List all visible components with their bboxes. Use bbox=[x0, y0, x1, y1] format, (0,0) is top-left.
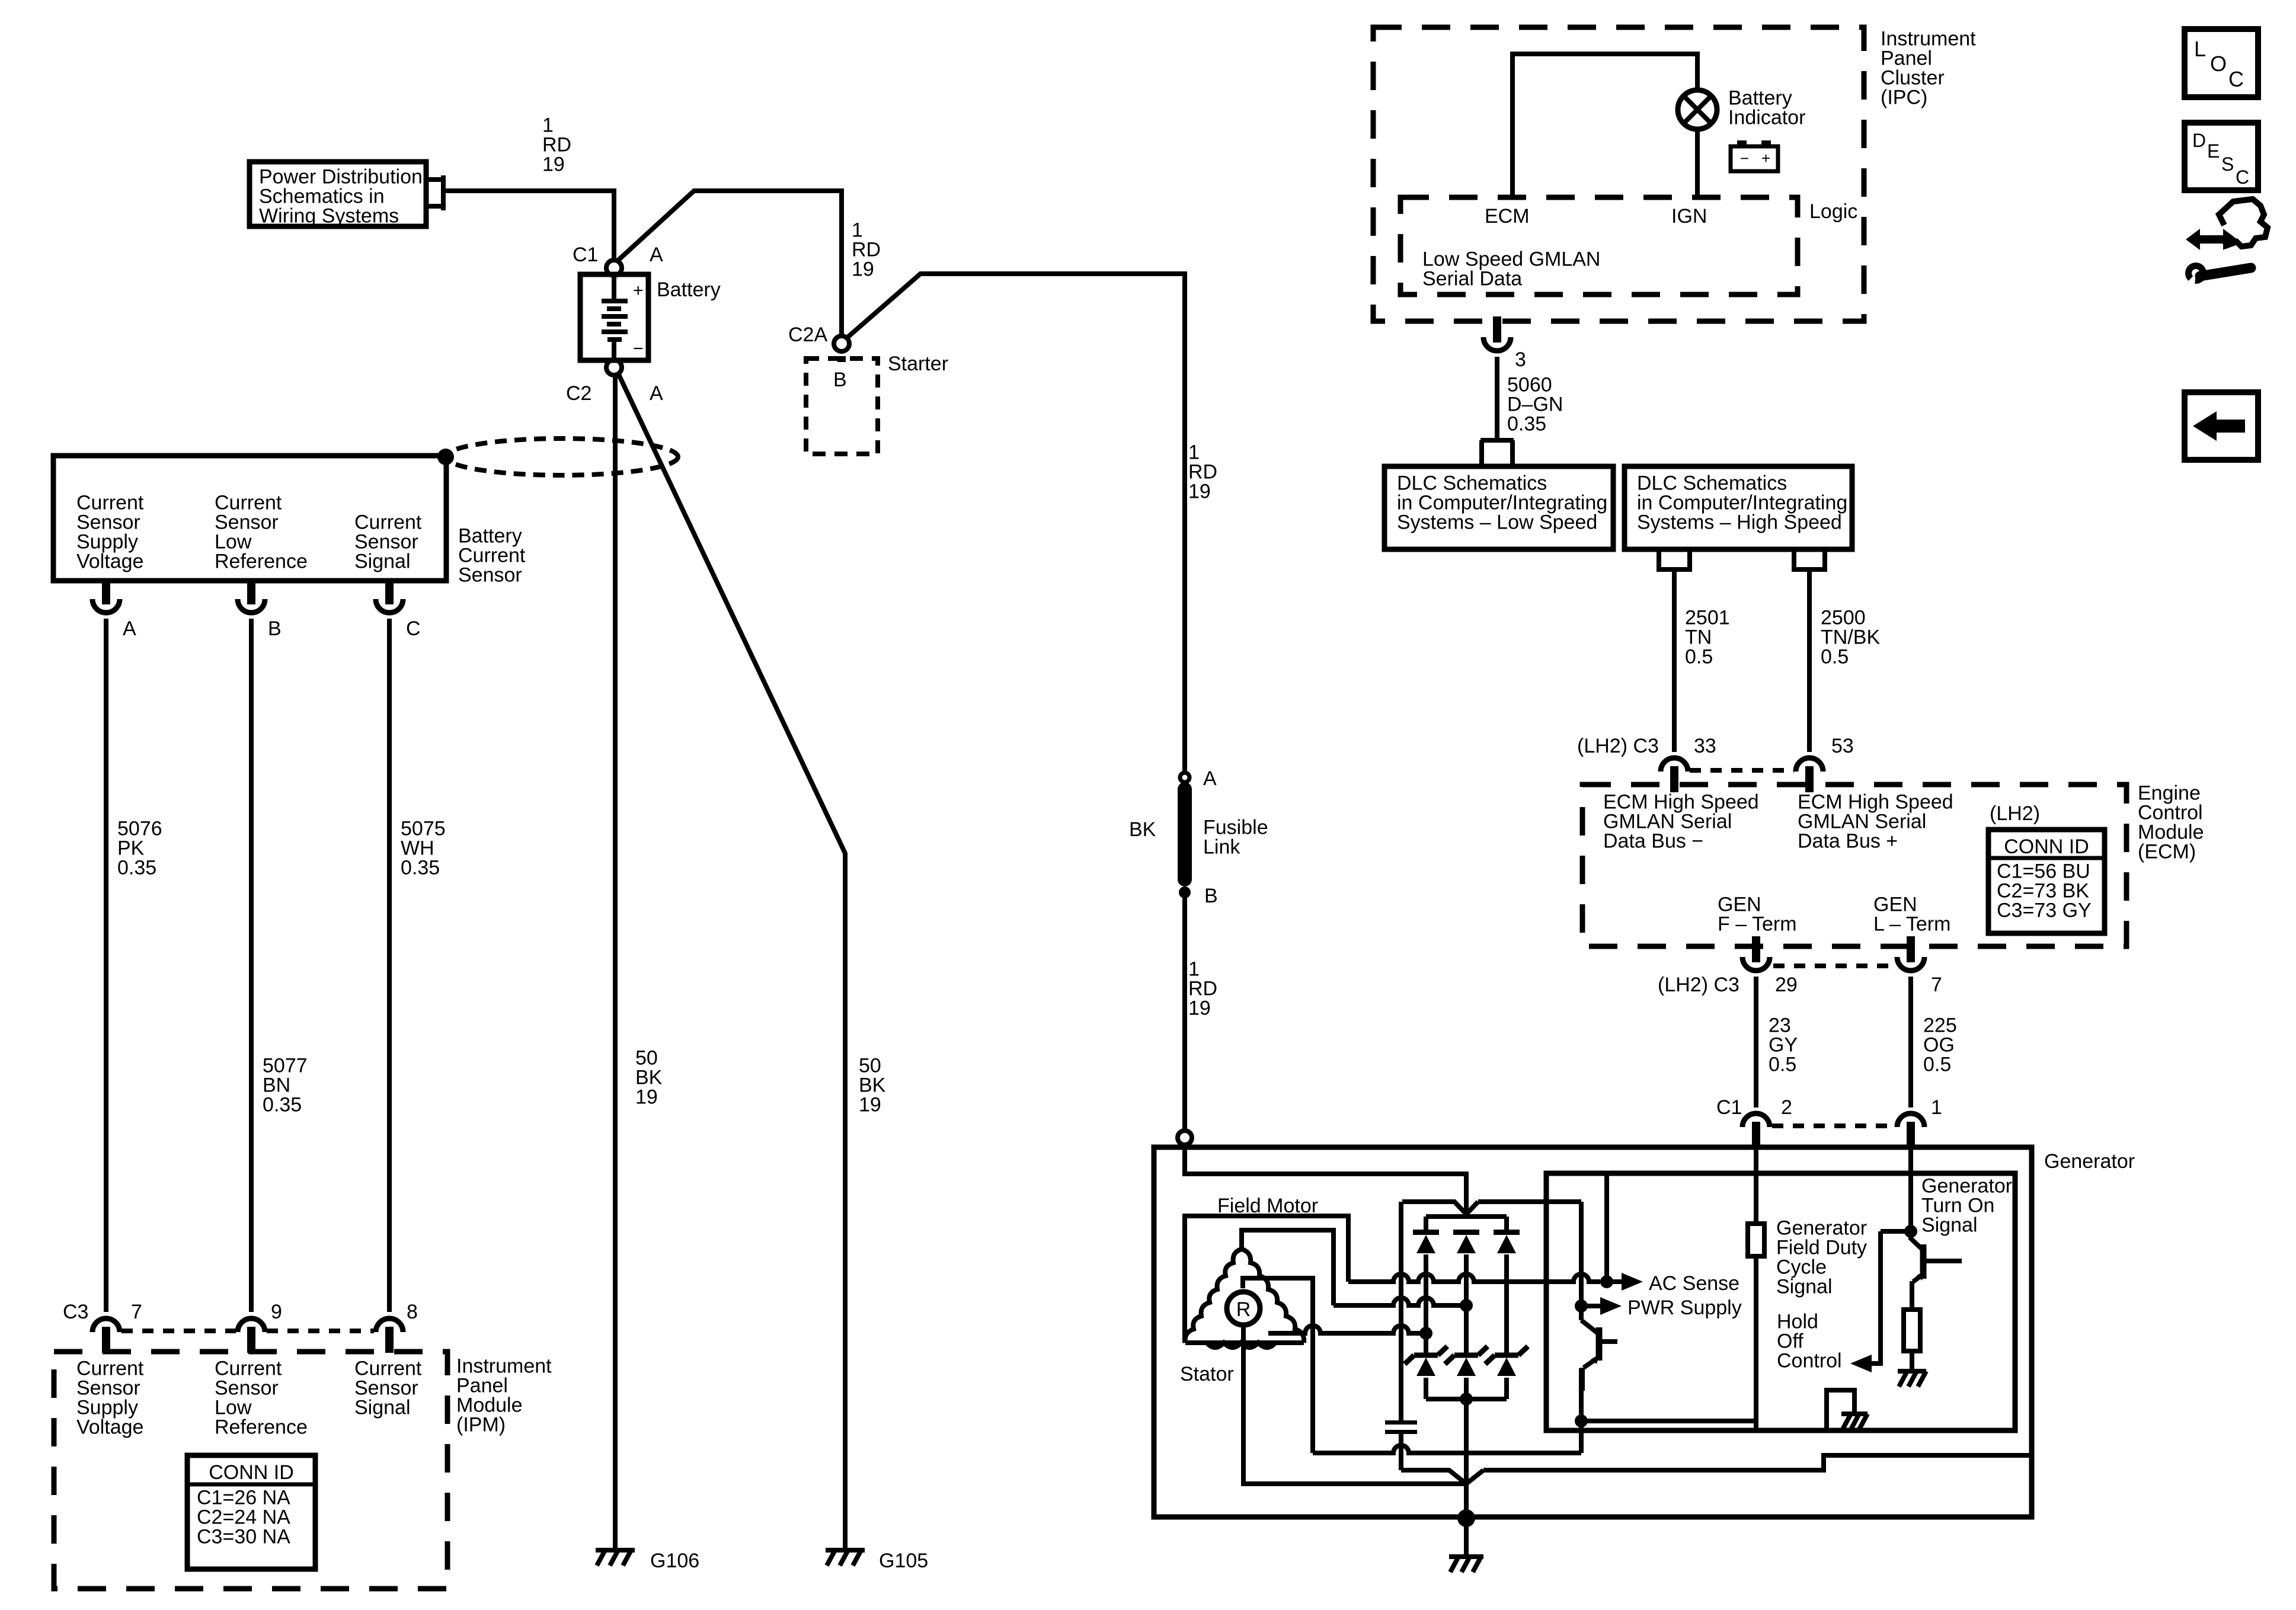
svg-text:2: 2 bbox=[1781, 1096, 1792, 1119]
svg-text:B: B bbox=[1204, 885, 1218, 907]
wire: stator phase 2 to D2 column bbox=[1334, 1298, 1466, 1305]
svg-text:Signal: Signal bbox=[1921, 1214, 1978, 1237]
svg-text:19: 19 bbox=[852, 258, 874, 281]
junction on zener rail bbox=[1460, 1393, 1473, 1406]
svg-text:A: A bbox=[123, 617, 136, 640]
box: Generator bbox=[1154, 1147, 2032, 1517]
svg-text:E: E bbox=[2207, 140, 2220, 162]
svg-text:Voltage: Voltage bbox=[76, 1416, 143, 1439]
wire: pin 1 into generator bbox=[1908, 1139, 1913, 1227]
junction on D1 column (phase 3) bbox=[1419, 1327, 1432, 1340]
svg-text:Indicator: Indicator bbox=[1728, 107, 1805, 129]
svg-text:L – Term: L – Term bbox=[1873, 913, 1950, 936]
svg-text:Signal: Signal bbox=[1776, 1276, 1833, 1298]
svg-text:Reference: Reference bbox=[215, 1416, 308, 1439]
box: DLC Schematics high speed bbox=[1625, 466, 1852, 549]
wire: B+ into generator to rectifier top rail bbox=[1185, 1145, 1466, 1217]
svg-text:Wiring Systems: Wiring Systems bbox=[259, 205, 399, 228]
svg-text:(LH2) C3: (LH2) C3 bbox=[1577, 735, 1659, 757]
node C2A (starter terminal ring) bbox=[834, 336, 849, 351]
fork from high-speed DLC (bus +) bbox=[1792, 549, 1827, 569]
svg-text:Signal: Signal bbox=[354, 550, 411, 573]
svg-text:Sensor: Sensor bbox=[458, 564, 522, 587]
rectifier diode D2 bbox=[1453, 1230, 1479, 1235]
svg-text:Signal: Signal bbox=[354, 1397, 411, 1419]
icon: LOC bbox=[2185, 29, 2258, 97]
svg-text:C3=30 NA: C3=30 NA bbox=[197, 1526, 290, 1548]
svg-text:L: L bbox=[2194, 37, 2206, 61]
svg-text:G105: G105 bbox=[879, 1550, 928, 1572]
ECM pin 53 connector bbox=[1796, 758, 1823, 772]
junction node on sensor box (B- tie) bbox=[437, 449, 454, 465]
transistor Q1 (regulator driver) bbox=[1581, 1320, 1598, 1333]
CONN ID table of IPM bbox=[187, 1455, 315, 1569]
junction AC sense bbox=[1600, 1275, 1613, 1288]
junction on D2 column (phase 2) bbox=[1460, 1299, 1473, 1312]
ground G105 bbox=[826, 1548, 865, 1553]
svg-text:B: B bbox=[268, 617, 282, 640]
icon: DESC bbox=[2185, 123, 2258, 190]
svg-text:7: 7 bbox=[1931, 974, 1942, 996]
svg-text:Systems – Low Speed: Systems – Low Speed bbox=[1397, 511, 1597, 534]
svg-text:C: C bbox=[406, 617, 421, 640]
rectifier diode D1 bbox=[1413, 1230, 1439, 1235]
svg-text:Field Motor: Field Motor bbox=[1217, 1195, 1318, 1217]
generator chassis ground bbox=[1449, 1554, 1483, 1559]
wire: 5075 WH 0.35 (sensor signal) bbox=[387, 619, 392, 1312]
svg-text:R: R bbox=[1236, 1298, 1251, 1321]
zener diode Z3 bbox=[1495, 1353, 1518, 1358]
svg-text:0.5: 0.5 bbox=[1685, 646, 1713, 668]
svg-text:(LH2): (LH2) bbox=[1990, 802, 2040, 825]
svg-text:G106: G106 bbox=[650, 1550, 699, 1572]
zener diode Z2 bbox=[1454, 1353, 1478, 1358]
PWR Supply arrow bbox=[1581, 1304, 1600, 1308]
B+ rail split (V) to cap rail and regulator rail bbox=[1402, 1202, 1581, 1214]
svg-text:19: 19 bbox=[1188, 997, 1211, 1020]
svg-text:ECM: ECM bbox=[1485, 205, 1530, 228]
fork from high-speed DLC (bus -) bbox=[1657, 549, 1692, 569]
wire: 5077 BN 0.35 (low reference) bbox=[249, 619, 254, 1312]
svg-text:19: 19 bbox=[635, 1086, 658, 1109]
icon: schematic navigation (arrows and wrench) bbox=[2186, 229, 2237, 250]
svg-text:0.35: 0.35 bbox=[263, 1094, 302, 1116]
stator inner loop (apex) bbox=[1242, 1230, 1334, 1305]
svg-text:−: − bbox=[633, 339, 644, 359]
connector dashed line C3 of IPM bbox=[121, 1329, 236, 1333]
zener diode Z1 bbox=[1414, 1353, 1438, 1358]
wire: turn on signal with junction bbox=[1904, 1225, 1917, 1238]
svg-text:C2A: C2A bbox=[788, 324, 827, 346]
box: Instrument Panel Cluster IPC (dashed) bbox=[1373, 27, 1864, 321]
svg-text:Voltage: Voltage bbox=[76, 550, 143, 573]
svg-text:+: + bbox=[633, 281, 644, 300]
ECM pin 33 connector bbox=[1661, 758, 1688, 772]
connector dashed line (LH2) C3 row bbox=[1773, 964, 1894, 968]
box: voltage regulator (inner) bbox=[1546, 1173, 2015, 1430]
pin C connector of current sensor bbox=[385, 581, 394, 598]
wire: 2501 TN 0.5 bbox=[1672, 569, 1677, 752]
zener common rail bbox=[1426, 1397, 1507, 1401]
svg-text:8: 8 bbox=[407, 1301, 418, 1323]
resistor R2 (turn on pulldown) bbox=[1904, 1310, 1920, 1351]
IPM pin 9 connector bbox=[238, 1318, 265, 1332]
wire: regulator common return bbox=[1483, 1455, 2029, 1470]
ground merge into center column bbox=[1401, 1470, 1483, 1484]
wire: rotor to ground rail bbox=[1243, 1325, 1466, 1484]
wire: 50 BK 19 to G106 bbox=[613, 375, 618, 1550]
battery B1 bbox=[580, 274, 648, 360]
wire: AC sense tap from inner box top bbox=[1604, 1173, 1609, 1282]
rectifier cathode rail bbox=[1426, 1214, 1507, 1219]
junction PWR supply bbox=[1575, 1299, 1588, 1313]
svg-text:19: 19 bbox=[859, 1094, 881, 1116]
svg-text:CONN ID: CONN ID bbox=[209, 1461, 294, 1484]
svg-text:S: S bbox=[2221, 153, 2234, 175]
hold off control path bbox=[1872, 1231, 1911, 1363]
wire: battery positive to starter branch bbox=[617, 191, 842, 335]
svg-text:0.5: 0.5 bbox=[1821, 646, 1849, 668]
fork into DLC low-speed box bbox=[1480, 440, 1514, 466]
svg-text:Link: Link bbox=[1203, 836, 1240, 859]
svg-text:BK: BK bbox=[1129, 818, 1156, 841]
svg-text:Battery: Battery bbox=[657, 279, 721, 301]
svg-text:53: 53 bbox=[1831, 735, 1854, 757]
wire: 5060 D-GN 0.35 serial data bbox=[1495, 357, 1499, 438]
svg-text:3: 3 bbox=[1515, 348, 1526, 371]
svg-text:C1: C1 bbox=[1716, 1096, 1742, 1119]
svg-text:Data Bus −: Data Bus − bbox=[1603, 830, 1703, 853]
svg-text:(ECM): (ECM) bbox=[2138, 841, 2196, 863]
svg-text:0.5: 0.5 bbox=[1923, 1054, 1951, 1076]
wire: 23 GY 0.5 field duty cycle bbox=[1754, 977, 1758, 1108]
generator case ground node bbox=[1457, 1509, 1475, 1527]
rectifier diode D3 bbox=[1494, 1230, 1520, 1235]
CONN ID table of ECM bbox=[1988, 830, 2105, 933]
svg-text:(IPC): (IPC) bbox=[1881, 87, 1927, 109]
svg-text:Generator: Generator bbox=[2044, 1150, 2135, 1173]
svg-text:33: 33 bbox=[1694, 735, 1716, 757]
wire: ECM to battery indicator inside IPC bbox=[1512, 54, 1697, 197]
svg-text:+: + bbox=[1761, 149, 1770, 167]
svg-text:B: B bbox=[833, 369, 847, 391]
chassis ground of R2 bbox=[1898, 1369, 1926, 1374]
svg-text:Logic: Logic bbox=[1809, 200, 1857, 223]
IPM pin 7 connector bbox=[92, 1318, 120, 1332]
svg-text:A: A bbox=[1203, 767, 1217, 790]
svg-text:O: O bbox=[2210, 52, 2227, 76]
regulator chassis ground bbox=[1841, 1411, 1868, 1416]
fusible link terminal B (junction) bbox=[1179, 886, 1191, 898]
svg-text:F – Term: F – Term bbox=[1718, 913, 1797, 936]
svg-text:C: C bbox=[2236, 167, 2249, 188]
svg-text:C2: C2 bbox=[566, 382, 591, 405]
AC Sense arrow bbox=[1607, 1279, 1622, 1284]
box: Power Distribution Schematics in Wiring Systems bbox=[250, 162, 426, 226]
generator ground stem bbox=[1464, 1518, 1469, 1557]
box: Engine Control Module ECM (dashed) bbox=[1582, 785, 2126, 946]
wire: 2500 TN/BK 0.5 bbox=[1807, 569, 1812, 752]
connector dashed line (generator C1) bbox=[1772, 1124, 1895, 1128]
svg-text:PWR Supply: PWR Supply bbox=[1627, 1297, 1742, 1319]
svg-text:0.35: 0.35 bbox=[117, 857, 156, 879]
pin B connector of current sensor bbox=[247, 581, 255, 598]
rotor R bbox=[1227, 1292, 1260, 1325]
svg-text:D: D bbox=[2192, 130, 2206, 151]
svg-text:9: 9 bbox=[271, 1301, 282, 1323]
node C1 (battery positive terminal) bbox=[606, 260, 622, 276]
svg-text:Data Bus +: Data Bus + bbox=[1798, 830, 1898, 853]
Hold Off Control arrow bbox=[1850, 1355, 1872, 1372]
svg-text:A: A bbox=[650, 382, 663, 405]
box: Battery Current Sensor bbox=[53, 456, 446, 581]
svg-text:19: 19 bbox=[542, 153, 565, 176]
svg-text:Serial Data: Serial Data bbox=[1422, 268, 1522, 290]
ECM GEN F-Term pin connector bbox=[1752, 940, 1760, 956]
wire: 1 RD 19 fusible link to generator bbox=[1182, 892, 1187, 1131]
wire: battery positive feed B+ from Power Distribution to C1 bbox=[443, 191, 614, 260]
fusible link terminal A bbox=[1180, 773, 1189, 782]
wire: regulator emitter return bbox=[1313, 1445, 1581, 1453]
wire: starter feed to fusible link bbox=[846, 274, 1185, 773]
field motor winding loop bbox=[1185, 1216, 1348, 1343]
IPM pin 8 connector bbox=[376, 1318, 403, 1332]
regulator internal ground staple bbox=[1827, 1390, 1854, 1430]
ground G106 bbox=[596, 1548, 635, 1553]
svg-text:AC Sense: AC Sense bbox=[1649, 1272, 1739, 1295]
node C2 (battery negative terminal) bbox=[606, 360, 622, 375]
wire: stator phase 1 to D3 column and AC sense bbox=[1348, 1274, 1600, 1282]
stator delta winding (scalloped) bbox=[1185, 1249, 1242, 1343]
wire: pin 2 into generator bbox=[1754, 1139, 1758, 1224]
svg-text:0.5: 0.5 bbox=[1769, 1054, 1796, 1076]
svg-text:0.35: 0.35 bbox=[401, 857, 440, 879]
battery icon in IPC bbox=[1731, 146, 1778, 171]
svg-text:C1: C1 bbox=[573, 244, 598, 266]
connector dashed line (ECM C3) bbox=[1690, 768, 1794, 773]
off-page bracket on Power Distribution box bbox=[426, 175, 443, 210]
stator triangle bottom edge bbox=[1185, 1340, 1304, 1345]
svg-text:Starter: Starter bbox=[888, 353, 948, 375]
wire: stator phase 3 to D1 column bbox=[1268, 1326, 1426, 1333]
icon: back arrow bbox=[2185, 392, 2258, 460]
box: DLC Schematics low speed bbox=[1384, 466, 1613, 549]
svg-text:0.35: 0.35 bbox=[1507, 413, 1546, 436]
junction Q1 emitter bbox=[1575, 1414, 1588, 1427]
svg-text:A: A bbox=[650, 244, 663, 266]
box: IPC Logic (dashed) bbox=[1400, 197, 1798, 295]
svg-text:IGN: IGN bbox=[1671, 205, 1707, 228]
dashed splice ellipse bbox=[446, 438, 678, 475]
svg-text:7: 7 bbox=[131, 1301, 142, 1323]
generator C1 pin 2 connector bbox=[1742, 1113, 1770, 1127]
svg-text:Control: Control bbox=[1777, 1350, 1842, 1372]
box: Instrument Panel Module IPM (dashed) bbox=[54, 1352, 447, 1589]
svg-text:29: 29 bbox=[1775, 974, 1798, 996]
svg-text:Reference: Reference bbox=[215, 550, 308, 573]
svg-text:Systems – High Speed: Systems – High Speed bbox=[1637, 511, 1842, 534]
generator C1 pin 1 connector bbox=[1897, 1113, 1924, 1127]
svg-text:(LH2) C3: (LH2) C3 bbox=[1658, 974, 1739, 996]
ECM GEN L-Term pin connector bbox=[1907, 940, 1915, 956]
svg-text:CONN ID: CONN ID bbox=[2004, 836, 2089, 858]
wire: 5076 PK 0.35 (supply voltage) bbox=[104, 619, 108, 1312]
IPC pin 3 connector bbox=[1493, 321, 1501, 339]
rotor loop to regulator bbox=[1243, 1278, 1313, 1453]
svg-text:1: 1 bbox=[1931, 1096, 1942, 1119]
battery indicator bulb bbox=[1678, 90, 1717, 129]
wire: 225 OG 0.5 turn on signal bbox=[1908, 977, 1913, 1108]
wire: Q1 emitter to field duty line bbox=[1581, 1419, 1756, 1423]
wire: center column to case ground bbox=[1464, 1399, 1469, 1517]
svg-text:19: 19 bbox=[1188, 481, 1211, 503]
generator B+ terminal bbox=[1178, 1131, 1192, 1145]
regulator supply rail down bbox=[1579, 1202, 1584, 1320]
capacitor C1 (noise suppression) bbox=[1399, 1202, 1403, 1420]
starter (dashed outline) bbox=[806, 359, 878, 454]
svg-text:C3: C3 bbox=[63, 1301, 88, 1323]
fusible link element bbox=[1178, 782, 1192, 886]
transistor Q2 (turn on) bbox=[1911, 1231, 1922, 1249]
svg-text:C3=73 GY: C3=73 GY bbox=[1997, 900, 2092, 922]
svg-text:(IPM): (IPM) bbox=[456, 1414, 506, 1436]
pin A connector of current sensor bbox=[102, 581, 110, 598]
svg-text:C: C bbox=[2228, 67, 2244, 91]
wire: 50 BK 19 to G105 (diagonal) bbox=[618, 373, 845, 1550]
wire: bulb to IGN bbox=[1695, 129, 1700, 197]
svg-text:−: − bbox=[1740, 149, 1749, 167]
svg-text:Stator: Stator bbox=[1180, 1363, 1234, 1385]
resistor R1 (generator field duty cycle) bbox=[1748, 1224, 1764, 1256]
